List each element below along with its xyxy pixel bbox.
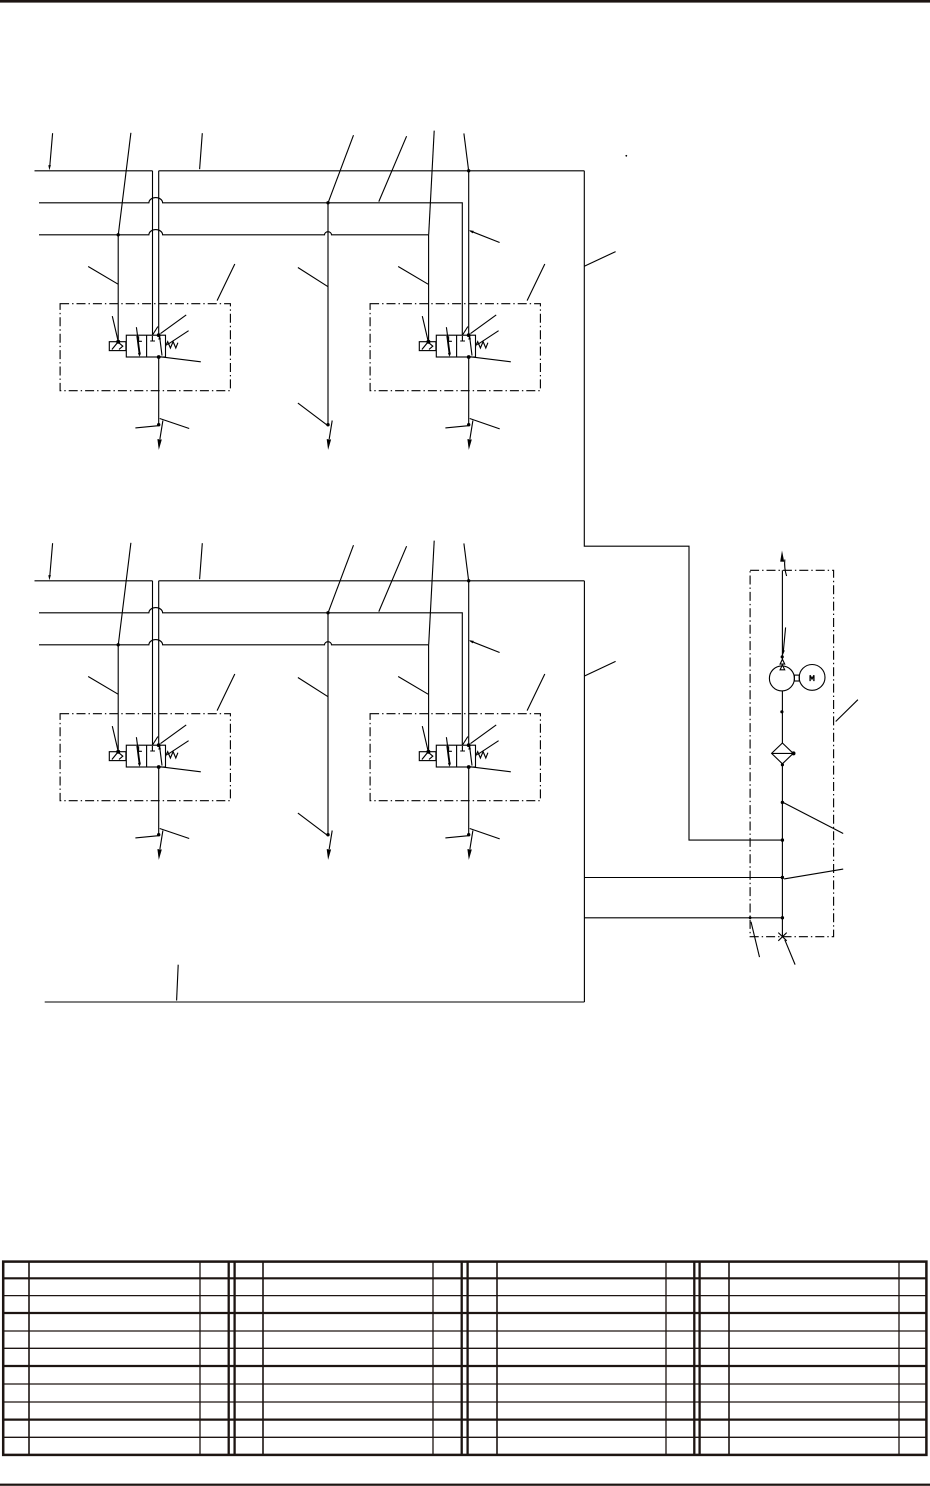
tank X mark bbox=[778, 933, 786, 941]
table column line d1 bbox=[728, 1262, 730, 1455]
pump outlet arrow tail bbox=[785, 560, 787, 577]
parts table outer border bbox=[3, 1262, 926, 1455]
table row line 5 bbox=[3, 1347, 926, 1349]
junction dot filter right bbox=[792, 751, 796, 755]
leader to tank X bbox=[785, 940, 795, 965]
wire section 2 right vertical bbox=[583, 581, 585, 1002]
wire bottom return line bbox=[45, 1001, 585, 1003]
wire pump to filter bbox=[781, 691, 783, 743]
table column line c1 bbox=[496, 1262, 498, 1455]
junction dot return tee bbox=[781, 838, 784, 841]
table row line 1 thick bbox=[3, 1277, 926, 1279]
filter element line bbox=[772, 752, 794, 754]
table column line b1 bbox=[262, 1262, 264, 1455]
table double separator 2 bbox=[462, 1262, 468, 1455]
page footer rule bbox=[0, 1484, 930, 1486]
table column line a1 bbox=[28, 1262, 30, 1455]
leader to section 2 right vertical bbox=[585, 661, 616, 676]
wire branch to pump tank bbox=[585, 917, 783, 919]
wire branch to pump suction bbox=[585, 877, 783, 879]
table column line c2 bbox=[665, 1262, 667, 1455]
table column line a2 bbox=[199, 1262, 201, 1455]
leader from suction tee bbox=[783, 802, 843, 833]
check valve triangle lower bbox=[780, 665, 785, 670]
junction dot above check valve bbox=[781, 655, 784, 658]
page header bar bbox=[0, 0, 930, 3]
junction dot box edge crossing bbox=[749, 916, 752, 919]
leader to pump box bbox=[836, 700, 858, 722]
pump motor coupling bbox=[794, 675, 799, 681]
leader to check valve with arrowhead bbox=[783, 627, 785, 650]
valve group section 1 bbox=[35, 131, 585, 450]
junction dot filter bottom bbox=[781, 763, 784, 766]
table double separator 1 bbox=[229, 1262, 235, 1455]
table row line 4 bbox=[3, 1330, 926, 1332]
stray dot bbox=[625, 155, 627, 157]
leader to box bottom left bbox=[751, 922, 760, 957]
table column line b2 bbox=[432, 1262, 434, 1455]
pump circle P1 bbox=[769, 666, 794, 691]
wire section 1 return drop to pump bbox=[584, 171, 782, 840]
pump outlet arrow head bbox=[780, 551, 784, 562]
component box pump unit bbox=[750, 570, 834, 936]
wire filter to tank bbox=[781, 764, 783, 937]
motor letter M bbox=[810, 675, 814, 681]
check valve triangle upper bbox=[780, 659, 785, 664]
table row line 6 thick bbox=[3, 1365, 926, 1367]
motor circle M1 bbox=[799, 665, 825, 691]
table column line d2 bbox=[898, 1262, 900, 1455]
junction dot suction line bbox=[781, 876, 784, 879]
table row line 3 thick bbox=[3, 1312, 926, 1314]
junction dot tank line bbox=[781, 916, 784, 919]
table double separator 3 bbox=[694, 1262, 699, 1455]
leader to bottom return line bbox=[177, 965, 179, 1001]
table row line 8 bbox=[3, 1401, 926, 1403]
leader to suction junction bbox=[784, 869, 843, 879]
valve group section 2 bbox=[35, 541, 585, 860]
table row line 7 bbox=[3, 1383, 926, 1385]
junction dot suction tee upper bbox=[781, 801, 784, 804]
table row line 10 bbox=[3, 1436, 926, 1438]
wire pump outlet vertical bbox=[781, 570, 783, 659]
junction dot below pump bbox=[780, 710, 783, 713]
leader to section 1 right vertical bbox=[584, 252, 615, 267]
table row line 9 thick bbox=[3, 1418, 926, 1420]
table row line 2 bbox=[3, 1295, 926, 1297]
filter diamond bbox=[772, 743, 794, 764]
